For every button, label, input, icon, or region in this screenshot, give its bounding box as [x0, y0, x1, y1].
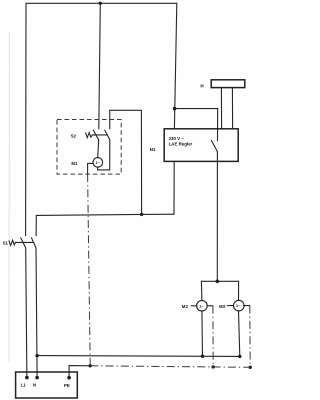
motor M2	[197, 301, 208, 312]
svg-text:H: H	[200, 83, 204, 88]
label M3 with tick	[219, 304, 234, 309]
wire: switched output down to motor bus	[216, 152, 218, 282]
wire: N return bus bottom	[37, 355, 240, 358]
junction: motor feed T node	[216, 280, 220, 284]
junction: N feeder joins N bus	[140, 213, 143, 216]
switch S2 (double pole)	[86, 130, 110, 140]
enclosure dashed box around S2/M1	[57, 120, 121, 175]
junction: N bus at terminal riser	[35, 354, 38, 357]
label M2 with tick	[182, 304, 197, 309]
wire: N bus middle horizontal	[36, 214, 174, 215]
junction: M3 PE end of bus	[249, 366, 252, 369]
wire: M2 PE lead	[207, 305, 213, 307]
heating element H	[211, 80, 245, 129]
controller N1 box (230 V ~ LAE Regler)	[164, 129, 238, 162]
svg-text:L1: L1	[21, 382, 27, 387]
wire: PE terminal riser	[69, 366, 90, 378]
wire: branch to LAE internal switch	[175, 109, 218, 141]
svg-text:1~: 1~	[236, 303, 241, 308]
svg-text:1~: 1~	[199, 303, 204, 308]
terminal block L1 N PE	[16, 372, 78, 398]
junction: top T node	[99, 2, 102, 5]
wire: M1 left lead to PE	[88, 163, 94, 174]
svg-text:1~: 1~	[95, 160, 100, 165]
wire: N from S1 to terminal N	[36, 248, 37, 378]
wire: M2 PE dash-dot drop	[212, 306, 214, 367]
svg-text:PE: PE	[64, 383, 70, 388]
wire: N drop from controller box	[173, 161, 175, 214]
wire: L from S1 to terminal L1	[26, 248, 27, 378]
wire: S2 left pole to M1 top	[98, 140, 99, 158]
wire: M3 PE dash-dot drop	[249, 306, 251, 368]
svg-text:M3: M3	[219, 304, 226, 309]
wire: M2 bottom to N return bus	[201, 311, 204, 356]
switch inside N1 (blade)	[211, 140, 217, 151]
wire: drop to M3	[238, 281, 240, 300]
wire: N corner down to S1	[35, 215, 37, 235]
wire: S2 feed drop from top bus	[99, 3, 101, 129]
wire: PE dash-dot bus	[90, 366, 250, 368]
wire: L drop left to S1	[25, 3, 27, 236]
svg-text:M1: M1	[71, 161, 78, 166]
svg-text:N1: N1	[150, 147, 156, 152]
svg-text:N: N	[33, 382, 36, 387]
switch S1 (double pole)	[9, 238, 36, 248]
wire: PE dash-dot drop from M1	[88, 174, 91, 366]
wire: M3 bottom to N return bus	[239, 311, 240, 357]
svg-text:230 V ~: 230 V ~	[169, 136, 185, 141]
svg-text:S1: S1	[3, 241, 9, 246]
wire: right drop from top bus to LAE box	[174, 3, 176, 129]
svg-text:M2: M2	[182, 304, 189, 309]
wire: M3 PE lead	[244, 305, 250, 307]
wire: motor bus horizontal	[201, 280, 238, 282]
wire: M1 bottom loop to S2 right pole	[98, 140, 110, 170]
junction: L node at LAE box	[173, 107, 177, 111]
junction: M3 on N bus	[238, 355, 241, 358]
junction: PE node	[89, 364, 92, 367]
wire: top horizontal L bus	[26, 2, 177, 4]
motor M1	[93, 158, 103, 168]
svg-text:LAE Regler: LAE Regler	[169, 142, 193, 147]
motor M3	[234, 300, 245, 311]
svg-text:S2: S2	[71, 134, 77, 139]
wire: drop to M2	[200, 281, 203, 301]
junction: M2 on N bus	[201, 355, 204, 358]
wire: S2 right pole up and over to N feeder	[110, 110, 142, 214]
junction: M2 PE on PE bus	[212, 365, 215, 368]
